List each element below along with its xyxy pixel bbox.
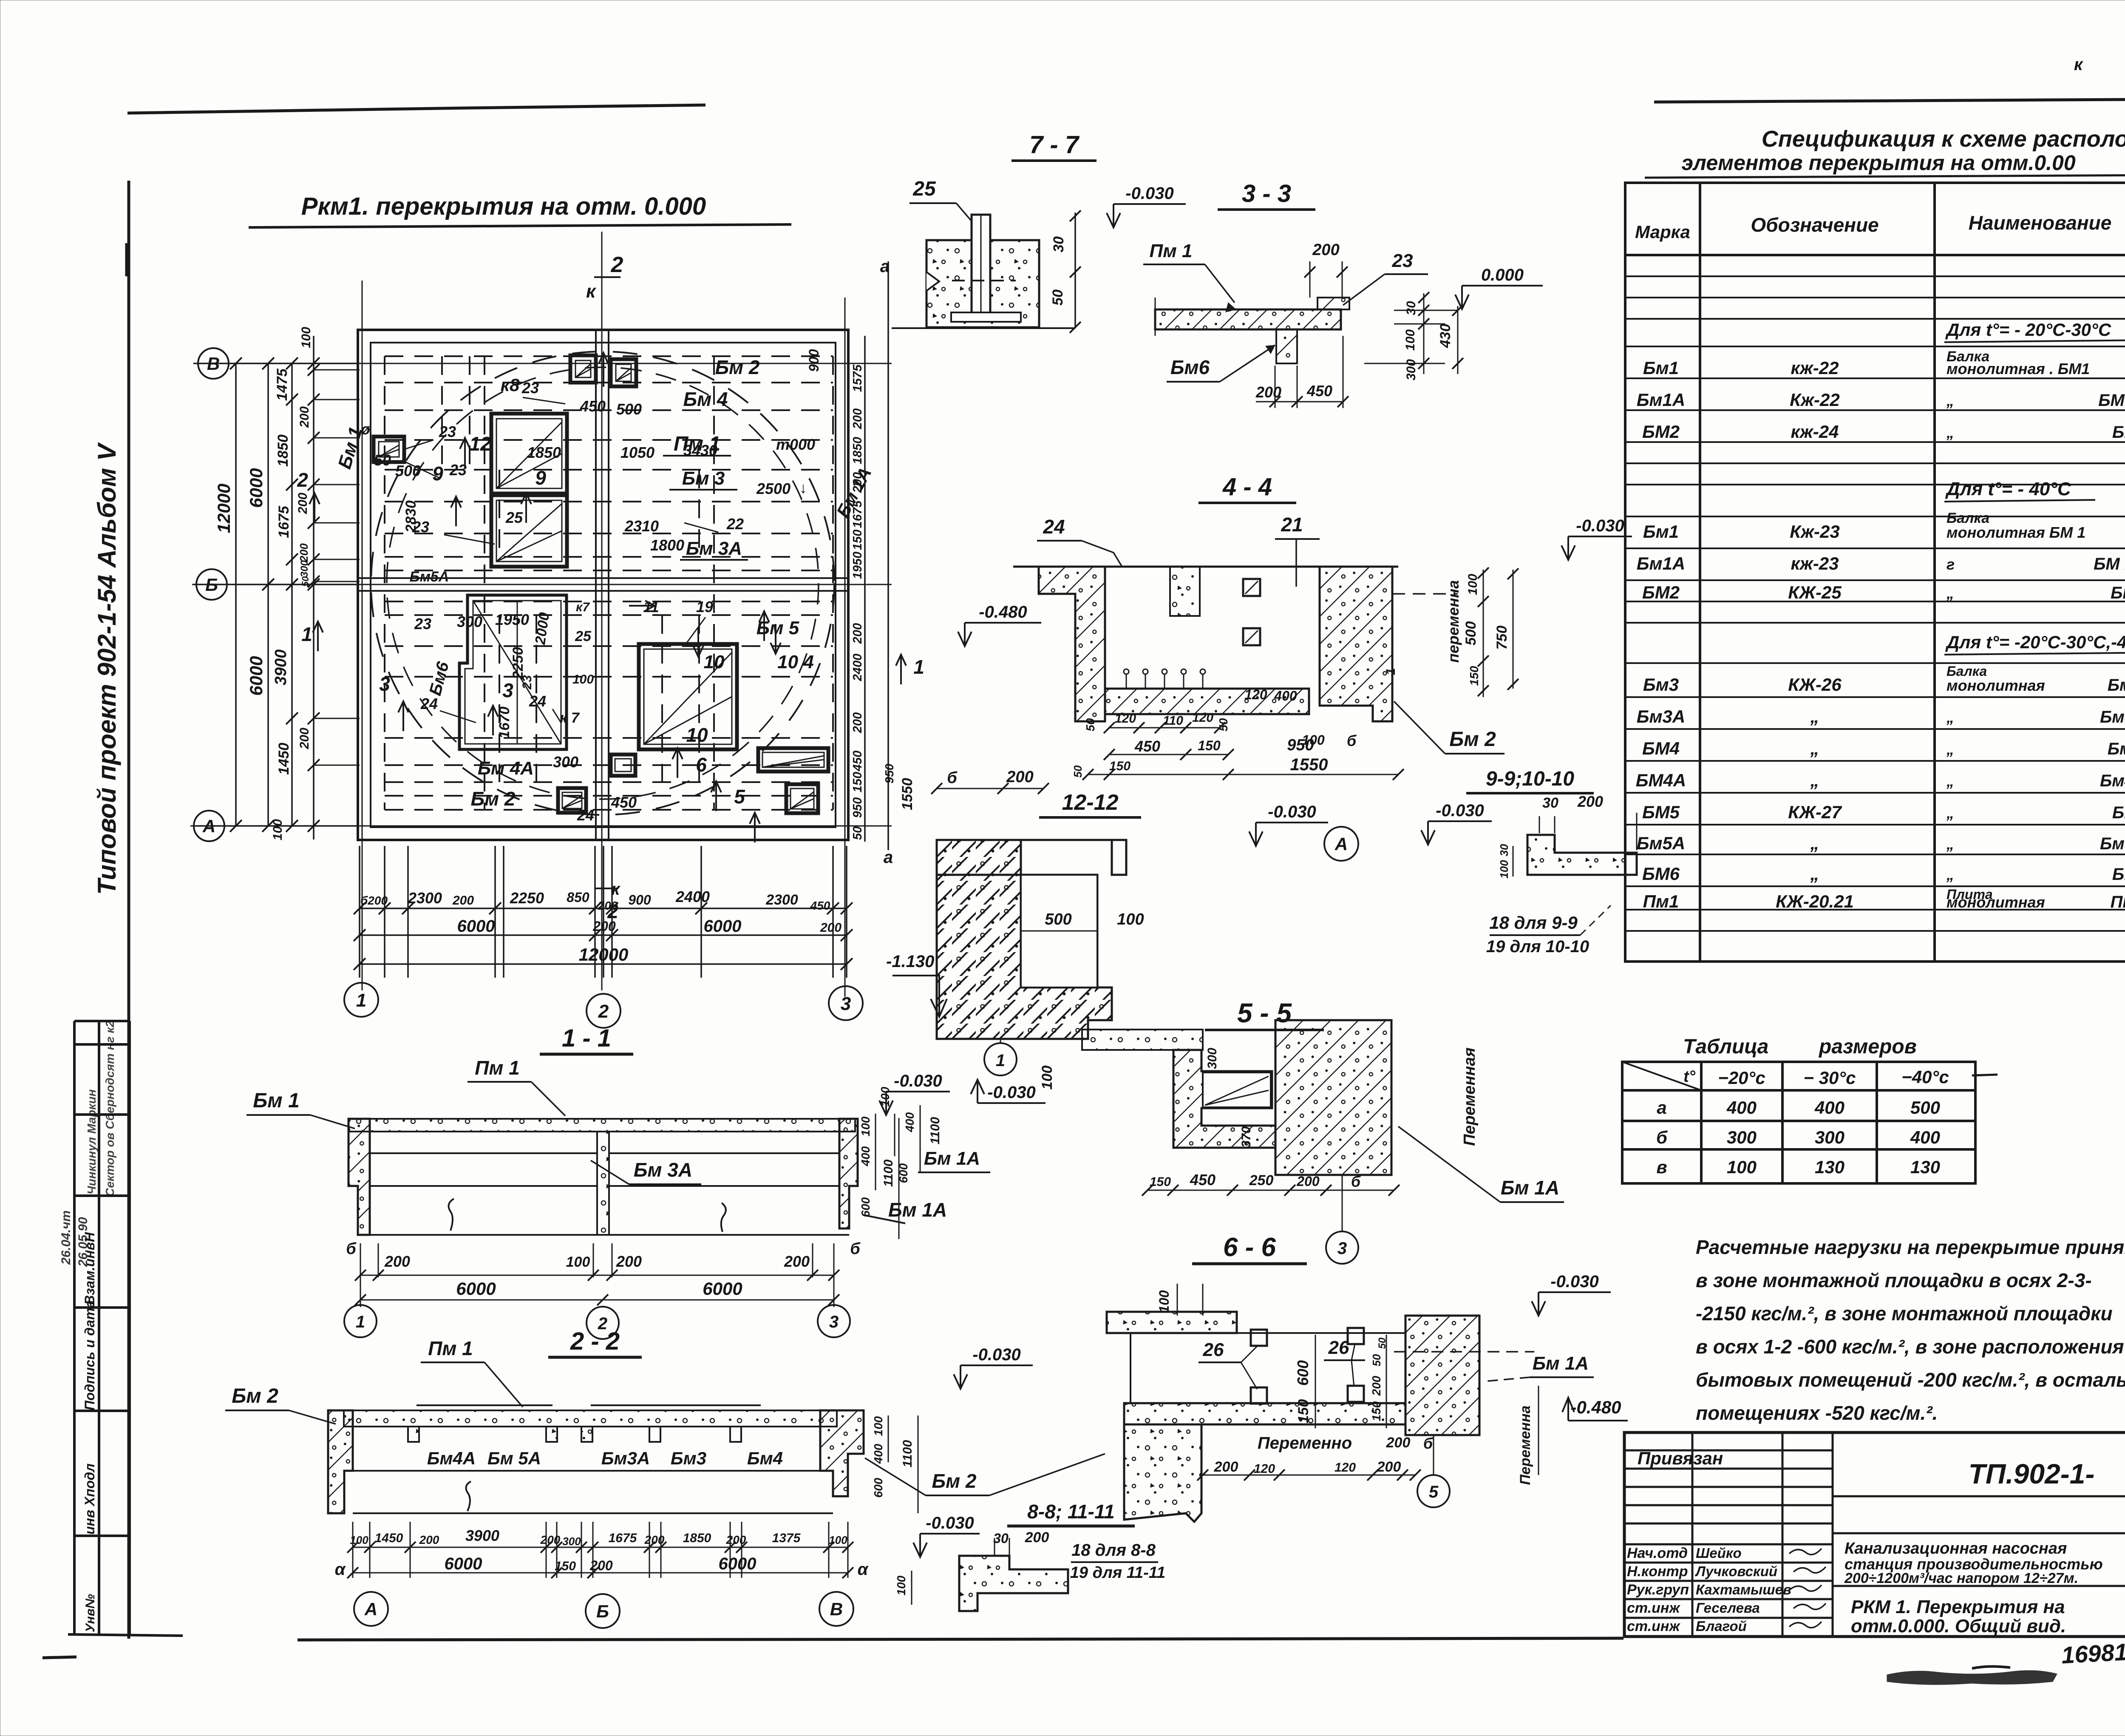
svg-text:Бм1: Бм1 (1643, 358, 1679, 378)
svg-text:-0.480: -0.480 (1570, 1397, 1621, 1417)
svg-text:300: 300 (299, 560, 310, 577)
svg-text:200: 200 (540, 1533, 561, 1546)
svg-text:26: 26 (1328, 1337, 1349, 1358)
svg-text:к 7: к 7 (560, 710, 580, 726)
svg-text:↓: ↓ (799, 479, 807, 496)
svg-text:250: 250 (1249, 1172, 1274, 1189)
svg-text:−40°с: −40°с (1901, 1067, 1949, 1087)
opening lower-left stepped (459, 595, 567, 749)
svg-text:ст.инж: ст.инж (1627, 1600, 1680, 1616)
svg-text:1100: 1100 (901, 1440, 915, 1467)
svg-text:Марка: Марка (1635, 222, 1690, 242)
svg-text:ТП.902-1-: ТП.902-1- (1969, 1458, 2095, 1489)
svg-text:3: 3 (1337, 1239, 1347, 1258)
svg-text:100: 100 (1156, 1290, 1172, 1313)
svg-text:3 - 3: 3 - 3 (1242, 180, 1291, 207)
right dimensions (865, 261, 888, 850)
svg-text:200: 200 (1296, 1174, 1320, 1189)
spec table grid (1625, 183, 2125, 962)
svg-text:1675: 1675 (851, 500, 864, 528)
svg-text:6000: 6000 (703, 1279, 742, 1299)
svg-text:450: 450 (1190, 1171, 1215, 1189)
svg-text:к: к (2074, 55, 2083, 74)
svg-text:1100: 1100 (928, 1117, 942, 1144)
svg-text:„: „ (1946, 709, 1954, 726)
svg-text:30: 30 (1498, 844, 1510, 856)
svg-text:ст.инж: ст.инж (1627, 1618, 1680, 1634)
svg-text:Бм 1А: Бм 1А (1533, 1353, 1589, 1374)
svg-text:Бм 3А: Бм 3А (686, 538, 742, 559)
svg-text:12: 12 (469, 433, 491, 455)
svg-text:-0.030: -0.030 (926, 1514, 974, 1532)
svg-text:50: 50 (1071, 765, 1084, 777)
svg-text:24: 24 (577, 806, 594, 824)
svg-text:1950: 1950 (495, 611, 529, 628)
svg-text:-0.030: -0.030 (1576, 516, 1624, 535)
svg-text:23: 23 (520, 675, 534, 690)
svg-text:200: 200 (726, 1533, 746, 1546)
svg-text:500: 500 (1910, 1098, 1940, 1118)
svg-text:450: 450 (851, 751, 864, 772)
svg-text:в осях 1-2 -600 кгс/м.², в: в осях 1-2 -600 кгс/м.², в зоне располож… (1696, 1336, 2124, 1358)
svg-text:2400: 2400 (851, 654, 864, 682)
svg-text:2310: 2310 (624, 517, 659, 535)
svg-text:-0.030: -0.030 (1125, 184, 1173, 203)
svg-text:Бм 2: Бм 2 (1449, 728, 1496, 751)
top border line right segment (1654, 99, 2125, 102)
svg-text:450: 450 (611, 794, 637, 811)
svg-text:1100: 1100 (881, 1159, 895, 1187)
svg-text:100: 100 (829, 1534, 847, 1546)
svg-text:50: 50 (1217, 718, 1230, 732)
svg-text:22: 22 (726, 515, 744, 533)
sidebar vertical project text (93, 243, 126, 895)
axis circle 1 (344, 983, 378, 1017)
svg-text:6000: 6000 (719, 1554, 756, 1573)
svg-text:„: „ (1810, 864, 1819, 884)
svg-text:100: 100 (859, 1116, 872, 1136)
svg-text:400: 400 (1274, 688, 1297, 703)
svg-text:Бм1А: Бм1А (1637, 390, 1686, 410)
svg-text:б: б (346, 1240, 357, 1258)
svg-text:300: 300 (1727, 1127, 1757, 1147)
svg-text:23: 23 (449, 461, 467, 479)
svg-text:Н.контр: Н.контр (1627, 1563, 1688, 1580)
svg-text:200: 200 (851, 472, 864, 493)
dashed beam lines (385, 356, 833, 810)
svg-text:1670: 1670 (496, 706, 513, 739)
svg-text:450: 450 (1134, 738, 1160, 755)
svg-text:19 для 10-10: 19 для 10-10 (1486, 937, 1589, 956)
svg-text:РКМ 1. Перекрытия на: РКМ 1. Перекрытия на (1851, 1597, 2065, 1617)
svg-text:α: α (858, 1560, 869, 1579)
svg-text:Кахтамышев: Кахтамышев (1696, 1582, 1791, 1597)
svg-text:200: 200 (1025, 1529, 1049, 1546)
svg-text:2830: 2830 (403, 500, 419, 533)
svg-text:1550: 1550 (1290, 755, 1328, 774)
svg-text:7 - 7: 7 - 7 (1029, 131, 1080, 159)
svg-text:6000: 6000 (246, 656, 266, 695)
svg-text:БМ2: БМ2 (1642, 582, 1680, 602)
svg-text:-0.030: -0.030 (1550, 1272, 1598, 1291)
svg-text:100: 100 (1727, 1157, 1757, 1177)
opening big double center (491, 414, 567, 494)
svg-text:„: „ (1946, 866, 1954, 883)
svg-text:120: 120 (1334, 1461, 1356, 1475)
svg-text:Наименование: Наименование (1969, 212, 2112, 234)
svg-text:БМ2: БМ2 (2111, 584, 2125, 602)
svg-text:3: 3 (841, 993, 851, 1014)
svg-text:200: 200 (784, 1253, 810, 1270)
svg-text:БМ4: БМ4 (1642, 738, 1680, 758)
svg-text:200: 200 (1386, 1435, 1411, 1451)
svg-text:Бм3: Бм3 (671, 1448, 706, 1468)
svg-text:100: 100 (1466, 574, 1480, 595)
svg-text:120: 120 (1192, 711, 1213, 725)
opening top twin 2 (611, 359, 636, 386)
top border line left segment (127, 105, 705, 113)
svg-text:α: α (335, 1560, 346, 1579)
svg-text:Бм 2: Бм 2 (932, 1470, 977, 1492)
svg-text:19 для 11-11: 19 для 11-11 (1070, 1564, 1165, 1582)
svg-text:30: 30 (1404, 301, 1418, 315)
svg-text:Лучковский: Лучковский (1695, 1563, 1777, 1579)
axis circle 2 (586, 994, 620, 1028)
svg-text:Ркм1. перекрытия на отм.: Ркм1. перекрытия на отм. 0.000 (301, 193, 706, 220)
svg-text:б: б (1423, 1435, 1434, 1452)
axis circle B (198, 348, 229, 379)
svg-text:23: 23 (414, 615, 431, 633)
svg-text:Переменно: Переменно (1258, 1434, 1352, 1452)
svg-text:120: 120 (1115, 712, 1136, 726)
svg-text:Подпись и дата: Подпись и дата (82, 1300, 97, 1410)
svg-text:а: а (884, 848, 893, 867)
svg-text:200: 200 (820, 921, 841, 935)
svg-text:а: а (1657, 1098, 1666, 1118)
svg-text:1550: 1550 (899, 778, 915, 810)
svg-text:200: 200 (1577, 793, 1603, 810)
svg-text:Пм1: Пм1 (1643, 891, 1679, 911)
svg-text:Нач.отд: Нач.отд (1627, 1545, 1688, 1561)
svg-text:б: б (850, 1240, 861, 1258)
svg-text:1850: 1850 (683, 1531, 711, 1545)
svg-text:Бм4: Бм4 (747, 1448, 783, 1468)
svg-text:24: 24 (420, 695, 438, 712)
svg-text:1: 1 (356, 990, 366, 1011)
svg-text:100: 100 (271, 819, 285, 840)
svg-text:0.000: 0.000 (1481, 266, 1524, 284)
svg-text:300: 300 (1404, 359, 1418, 380)
svg-text:1: 1 (301, 623, 312, 645)
svg-text:450: 450 (1306, 382, 1332, 400)
svg-text:Типовой проект 902-1-54 Ал: Типовой проект 902-1-54 Альбом V (93, 442, 121, 895)
svg-text:Бм2: Бм2 (2112, 423, 2125, 442)
svg-text:30: 30 (1051, 236, 1067, 252)
svg-text:100: 100 (1117, 911, 1144, 928)
svg-text:КЖ-20.21: КЖ-20.21 (1776, 891, 1854, 911)
svg-text:400: 400 (859, 1146, 872, 1166)
svg-text:110: 110 (1163, 714, 1183, 728)
svg-text:кж-23: кж-23 (1791, 553, 1839, 573)
svg-text:200: 200 (452, 894, 474, 908)
svg-text:450: 450 (810, 899, 830, 912)
svg-text:1675: 1675 (276, 505, 292, 538)
svg-text:Бм 2: Бм 2 (471, 788, 516, 810)
section cut arrows (460, 438, 470, 468)
svg-text:9: 9 (432, 462, 443, 485)
svg-text:9-9;10-10: 9-9;10-10 (1486, 768, 1574, 790)
svg-text:150: 150 (1370, 1401, 1383, 1421)
svg-text:БМ6: БМ6 (1642, 864, 1680, 884)
svg-text:„: „ (1946, 740, 1954, 758)
svg-text:„: „ (1946, 835, 1954, 853)
svg-text:Шейко: Шейко (1696, 1545, 1742, 1561)
svg-text:2: 2 (297, 469, 308, 491)
svg-text:3900: 3900 (465, 1527, 499, 1544)
svg-text:500: 500 (395, 462, 421, 479)
svg-text:1: 1 (356, 1313, 365, 1331)
svg-text:100: 100 (1498, 860, 1510, 879)
svg-text:Рук.груп: Рук.груп (1627, 1582, 1689, 1598)
svg-text:к: к (586, 281, 597, 302)
svg-text:1450: 1450 (375, 1531, 403, 1545)
svg-text:помещениях -520 кгс/м.².: помещениях -520 кгс/м.². (1696, 1402, 1938, 1424)
svg-text:6: 6 (696, 754, 707, 776)
svg-text:БМ1А: БМ1А (2098, 391, 2125, 410)
svg-text:Унв№: Унв№ (83, 1594, 97, 1632)
svg-text:200: 200 (851, 408, 864, 429)
svg-text:6000: 6000 (246, 468, 266, 508)
svg-text:а: а (880, 257, 890, 276)
svg-text:9: 9 (535, 467, 546, 489)
axis circles 1-1 (344, 1305, 377, 1337)
svg-text:50: 50 (1370, 1354, 1383, 1366)
svg-text:2: 2 (598, 1001, 609, 1022)
svg-text:Бм1: Бм1 (1643, 522, 1679, 542)
svg-text:2: 2 (611, 252, 623, 277)
svg-text:„: „ (1810, 706, 1819, 726)
svg-text:30: 30 (1542, 795, 1558, 811)
title block (1624, 1432, 2125, 1637)
svg-text:бытовых помещений -200 кгс/м.: бытовых помещений -200 кгс/м.², в осталь… (1696, 1369, 2125, 1391)
svg-text:к7: к7 (576, 600, 590, 614)
svg-text:Бм 5: Бм 5 (756, 618, 799, 638)
svg-text:200: 200 (384, 1253, 410, 1270)
stamp table (68, 1021, 183, 1636)
svg-text:ПМ1: ПМ1 (2111, 893, 2125, 911)
svg-text:Бм 4: Бм 4 (683, 388, 728, 410)
left dimensions (193, 336, 358, 840)
svg-text:100: 100 (350, 1534, 368, 1546)
svg-text:Бм3А: Бм3А (2100, 708, 2125, 726)
svg-text:1675: 1675 (609, 1531, 637, 1545)
svg-text:-0.480: -0.480 (979, 603, 1027, 621)
svg-text:26.04.чт: 26.04.чт (59, 1210, 73, 1265)
axis circle A (194, 811, 224, 841)
svg-text:Бм4А: Бм4А (427, 1448, 476, 1468)
svg-text:600: 600 (859, 1197, 872, 1217)
svg-text:6000: 6000 (456, 1279, 496, 1299)
svg-text:6000: 6000 (445, 1554, 482, 1573)
svg-text:Расчетные нагрузки на перек: Расчетные нагрузки на перекрытие приняты… (1696, 1236, 2125, 1258)
svg-text:„: „ (1946, 804, 1954, 822)
axis circle 3 (829, 986, 863, 1020)
svg-text:т000: т000 (776, 436, 815, 453)
svg-text:200: 200 (851, 712, 864, 733)
svg-text:„: „ (1810, 833, 1819, 853)
svg-text:18 для 8-8: 18 для 8-8 (1071, 1541, 1156, 1560)
svg-text:6000: 6000 (704, 917, 742, 936)
svg-text:100: 100 (895, 1575, 908, 1595)
svg-text:Б: Б (596, 1601, 609, 1621)
svg-text:10 4: 10 4 (777, 652, 814, 672)
svg-text:900: 900 (628, 892, 651, 908)
svg-text:2250: 2250 (510, 647, 526, 680)
svg-text:переменна: переменна (1445, 580, 1462, 663)
svg-text:монолитная: монолитная (1946, 677, 2045, 694)
svg-text:2400: 2400 (675, 888, 710, 905)
svg-text:Бм 1А: Бм 1А (924, 1148, 980, 1169)
svg-text:кж-22: кж-22 (1791, 358, 1839, 378)
dashed circle pump station wall (371, 352, 834, 815)
svg-text:Бм1А: Бм1А (1637, 553, 1686, 573)
svg-text:В: В (830, 1599, 843, 1619)
svg-text:БМ4А: БМ4А (1636, 770, 1686, 790)
svg-text:КЖ-27: КЖ-27 (1788, 802, 1842, 822)
svg-text:200: 200 (1370, 1376, 1383, 1396)
svg-text:300: 300 (562, 1535, 581, 1548)
svg-text:23: 23 (521, 379, 539, 397)
bottom frame line (297, 1638, 1623, 1640)
opening bottom small2 (611, 755, 635, 776)
svg-text:б: б (1656, 1127, 1668, 1147)
svg-text:6 - 6: 6 - 6 (1223, 1233, 1276, 1262)
opening bottom small 1 (558, 788, 586, 813)
svg-text:370: 370 (1239, 1126, 1253, 1148)
svg-text:1050: 1050 (620, 444, 654, 461)
svg-text:1800: 1800 (650, 536, 684, 554)
svg-text:200: 200 (1312, 241, 1339, 259)
svg-text:б: б (1347, 732, 1357, 749)
svg-text:2300: 2300 (765, 892, 798, 908)
svg-text:5: 5 (734, 786, 745, 808)
svg-text:монолитная: монолитная (1946, 894, 2045, 911)
svg-text:-0.030: -0.030 (987, 1083, 1035, 1102)
svg-text:Бм5: Бм5 (2112, 803, 2125, 822)
svg-text:26: 26 (1203, 1339, 1224, 1360)
svg-text:кж-24: кж-24 (1791, 422, 1839, 442)
svg-text:100: 100 (872, 1416, 885, 1436)
svg-text:1 - 1: 1 - 1 (562, 1024, 611, 1052)
svg-text:инв Хподл: инв Хподл (82, 1464, 97, 1535)
svg-text:30: 30 (993, 1531, 1009, 1546)
svg-text:300: 300 (1815, 1127, 1844, 1147)
svg-text:Для t°= - 20°С-30°С: Для t°= - 20°С-30°С (1945, 320, 2111, 340)
left frame vertical (127, 181, 130, 1639)
svg-text:Бм5А: Бм5А (410, 569, 449, 585)
svg-text:2250: 2250 (510, 889, 544, 907)
svg-text:5: 5 (1429, 1483, 1439, 1501)
svg-text:950: 950 (883, 763, 896, 783)
svg-text:1: 1 (1384, 668, 1398, 675)
svg-text:Спецификация к схеме располож: Спецификация к схеме расположения (1762, 126, 2125, 152)
svg-text:50: 50 (1050, 289, 1066, 306)
svg-text:150: 150 (1150, 1175, 1171, 1189)
svg-text:430: 430 (1437, 324, 1453, 349)
svg-text:монолитная . БМ1: монолитная . БМ1 (1946, 360, 2090, 377)
svg-text:130: 130 (1815, 1157, 1844, 1177)
svg-text:б: б (1351, 1173, 1361, 1190)
svg-text:„: „ (1946, 424, 1954, 441)
svg-text:500: 500 (1463, 621, 1479, 646)
svg-text:Геселева: Геселева (1696, 1600, 1760, 1616)
svg-text:− 30°с: − 30°с (1803, 1068, 1856, 1088)
svg-text:Переменна: Переменна (1517, 1405, 1533, 1485)
svg-text:Кж-23: Кж-23 (1790, 522, 1839, 542)
svg-text:1375: 1375 (772, 1531, 801, 1545)
svg-text:Бм 3: Бм 3 (2108, 676, 2125, 695)
svg-text:Бм3А: Бм3А (601, 1448, 650, 1468)
svg-text:Бм 5А: Бм 5А (487, 1448, 541, 1468)
svg-text:200: 200 (1377, 1459, 1401, 1475)
svg-text:КЖ-26: КЖ-26 (1788, 675, 1842, 695)
svg-text:50: 50 (851, 826, 864, 840)
svg-text:200: 200 (851, 623, 864, 644)
svg-text:50: 50 (374, 451, 391, 469)
svg-text:1475: 1475 (274, 368, 290, 401)
svg-text:ø: ø (361, 420, 370, 438)
svg-text:200: 200 (616, 1253, 642, 1270)
axis circles 2-2 (354, 1592, 388, 1626)
svg-text:25: 25 (912, 178, 936, 200)
svg-text:23: 23 (1392, 250, 1413, 271)
svg-text:25: 25 (575, 628, 592, 644)
svg-text:БМ 1А: БМ 1А (2094, 555, 2125, 573)
svg-text:Бм3А: Бм3А (1637, 706, 1686, 726)
svg-text:-0.030: -0.030 (972, 1345, 1020, 1364)
svg-text:200÷1200м³/час напором 12÷27м.: 200÷1200м³/час напором 12÷27м. (1844, 1570, 2078, 1586)
svg-text:„: „ (1946, 584, 1954, 602)
svg-text:1850: 1850 (851, 437, 864, 465)
svg-text:Бм 1: Бм 1 (253, 1089, 300, 1112)
svg-text:100: 100 (572, 672, 594, 686)
svg-text:120: 120 (1244, 687, 1267, 702)
svg-text:Бм 3: Бм 3 (682, 468, 725, 489)
svg-text:500: 500 (616, 400, 642, 418)
svg-text:300: 300 (553, 753, 578, 771)
svg-text:18 для 9-9: 18 для 9-9 (1489, 913, 1578, 933)
svg-text:Бм 1А: Бм 1А (888, 1199, 947, 1221)
svg-text:24: 24 (529, 692, 546, 710)
svg-text:„: „ (1946, 392, 1954, 409)
svg-text:1: 1 (996, 1051, 1005, 1070)
svg-text:Привязан: Привязан (1638, 1448, 1723, 1468)
svg-text:размеров: размеров (1818, 1035, 1917, 1058)
svg-text:1850: 1850 (527, 444, 561, 461)
svg-text:100: 100 (566, 1254, 590, 1270)
svg-text:100: 100 (1302, 732, 1325, 748)
svg-text:200: 200 (419, 1533, 439, 1546)
svg-text:100: 100 (1039, 1066, 1055, 1090)
svg-text:3: 3 (502, 679, 513, 701)
svg-text:-0.030: -0.030 (894, 1072, 942, 1090)
svg-text:24: 24 (1043, 516, 1065, 538)
svg-text:Благой: Благой (1696, 1618, 1747, 1634)
svg-text:200: 200 (589, 1558, 613, 1573)
svg-text:Бм6: Бм6 (1170, 356, 1210, 378)
svg-text:Канализационная насосная: Канализационная насосная (1844, 1540, 2067, 1557)
svg-text:Для t°= -20°С-30°С,-40°С: Для t°= -20°С-30°С,-40°С (1945, 632, 2125, 652)
